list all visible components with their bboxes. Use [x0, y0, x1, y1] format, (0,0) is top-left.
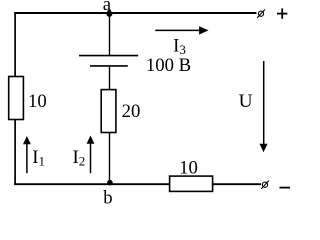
svg-text:10: 10 — [179, 157, 198, 178]
svg-text:20: 20 — [122, 101, 141, 122]
svg-text:a: a — [103, 0, 112, 15]
svg-text:b: b — [103, 188, 112, 207]
svg-text:100 В: 100 В — [146, 55, 191, 76]
svg-text:U: U — [239, 91, 253, 112]
svg-text:10: 10 — [28, 91, 47, 112]
